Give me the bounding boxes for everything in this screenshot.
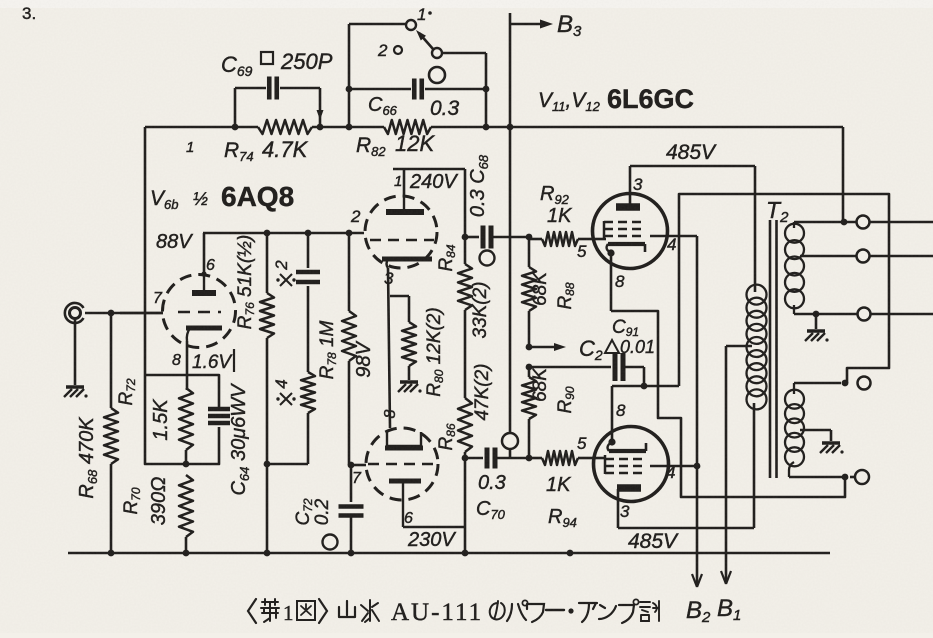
wire top line corner xyxy=(842,127,845,222)
label R82 12K xyxy=(356,131,435,159)
capacitor note2 xyxy=(296,233,320,372)
marker C68 circle xyxy=(480,251,495,266)
label R68 470K xyxy=(76,416,100,499)
tube V6b 6AQ8 envelope xyxy=(163,275,236,348)
wire switch box left xyxy=(348,24,351,127)
junction C68 out xyxy=(526,234,533,241)
transformer T2 secondary upper xyxy=(785,222,804,308)
label C68 xyxy=(467,154,491,217)
label V6b half 6AQ8 xyxy=(150,181,294,212)
label C72 xyxy=(293,498,315,525)
wire V6b pin6 xyxy=(201,233,206,277)
resistor R68 470K xyxy=(104,313,118,553)
label C72 value xyxy=(312,498,333,525)
junction C69 right xyxy=(317,124,324,131)
input jack xyxy=(65,303,84,323)
label 390ohm xyxy=(148,477,170,526)
wire V6b pin7 xyxy=(120,312,163,315)
label 230V xyxy=(407,529,456,551)
label 485V top xyxy=(666,141,717,164)
resistor R84 33K xyxy=(458,264,472,310)
label 1.6V xyxy=(192,349,234,373)
wire V12 plate to primary xyxy=(618,403,754,528)
label C91 xyxy=(612,317,639,339)
wire V12 cathode pin8 xyxy=(612,386,626,441)
tube V6b grid dashes xyxy=(178,311,221,314)
capacitor C68 0.3 xyxy=(465,226,529,249)
label pin 5 lower xyxy=(577,434,587,453)
wire feedback box xyxy=(145,375,219,464)
label 88V xyxy=(156,231,193,253)
page number 3. xyxy=(22,4,36,23)
label 68K upper xyxy=(530,271,551,306)
resistor R88 68K xyxy=(522,237,536,347)
wire pin3 to R80 xyxy=(390,295,409,298)
junction C66 right main xyxy=(483,124,490,131)
junction V12 screen xyxy=(694,463,701,470)
label pin 2 xyxy=(350,207,361,226)
label pin1 small xyxy=(186,139,194,156)
tube driver upper cathode xyxy=(382,259,432,268)
wire secondary row5 xyxy=(789,462,869,484)
marker C70 circle xyxy=(502,433,518,449)
label R84 xyxy=(436,244,458,271)
arrow C2 xyxy=(529,343,566,351)
junction switch-left/main xyxy=(346,124,353,131)
label R94 xyxy=(548,506,577,530)
label R88 xyxy=(555,282,577,309)
wire V6b cathode pin8 xyxy=(186,341,189,390)
junction R76 top xyxy=(264,230,271,237)
tube V6b plate xyxy=(192,277,216,293)
wire V11 cathode loop xyxy=(611,311,845,497)
label pin 8 xyxy=(172,352,181,369)
label B2 xyxy=(686,597,711,626)
label B3 xyxy=(557,11,582,40)
wire ground bus xyxy=(68,552,830,555)
label T2 xyxy=(766,197,789,226)
label B1 xyxy=(717,595,741,624)
wire R76-note4 link xyxy=(267,463,308,466)
wire driver plate pin1 xyxy=(403,169,406,196)
tube V12 6L6GC lower xyxy=(594,427,669,502)
wire chain mid xyxy=(464,310,467,398)
junction box bottom xyxy=(183,461,190,468)
tube driver lower cathode xyxy=(389,481,421,527)
resistor R94 1K xyxy=(529,451,593,465)
transformer T2 core xyxy=(770,220,777,478)
capacitor C72 0.2 xyxy=(339,465,364,553)
junction R68 top xyxy=(108,310,115,317)
resistor R78 1M xyxy=(342,233,356,465)
junction C2 node xyxy=(526,344,533,351)
label 485V bottom xyxy=(628,530,679,553)
wire feedback left drop xyxy=(144,127,147,375)
wire 88V node line xyxy=(203,232,364,235)
wire secondary row1 xyxy=(794,216,933,229)
wire B2 screen line xyxy=(696,236,699,586)
junction C72 bus xyxy=(348,550,355,557)
junction C66 right top xyxy=(483,86,490,93)
switch hub xyxy=(429,67,445,83)
label note4 xyxy=(272,379,296,405)
junction C69 left xyxy=(232,124,239,131)
tube driver upper envelope xyxy=(365,196,437,268)
wire jack ground drop xyxy=(74,319,77,385)
wire cathode pin3 to SRPP xyxy=(388,268,390,428)
arrow B2 xyxy=(692,574,702,587)
wire V11 grid pin5 xyxy=(593,238,606,241)
wire R76 to bus xyxy=(264,464,271,556)
tube driver lower plate xyxy=(385,432,423,448)
junction R76 bottom xyxy=(264,461,271,468)
label R92 1K xyxy=(547,205,573,227)
label 240V xyxy=(409,171,458,193)
wire V11 cathode pin8 xyxy=(611,254,625,311)
label C64 30u6WV xyxy=(228,383,252,496)
junction C68 tap xyxy=(462,234,469,241)
label C91 value xyxy=(605,337,655,357)
junction C91 out xyxy=(641,383,648,390)
label R92 xyxy=(540,183,570,207)
wire B3 line xyxy=(509,13,512,458)
label pin 6 lower-driver xyxy=(404,510,413,527)
label C66 xyxy=(368,94,398,118)
label C70 value xyxy=(478,472,506,494)
resistor R90 68K xyxy=(522,364,536,457)
junction note2 top xyxy=(305,230,312,237)
label R86 xyxy=(436,423,458,450)
label 47K2 xyxy=(472,363,493,420)
wire secondary row3 xyxy=(794,305,933,321)
switch wiper arm xyxy=(416,30,442,58)
wire secondary row4 xyxy=(794,377,871,395)
junction chain bus xyxy=(462,550,469,557)
wire B1 line xyxy=(725,346,728,583)
label note2 xyxy=(272,260,296,286)
junction B3 main xyxy=(507,124,514,131)
arrow B3 xyxy=(510,20,553,29)
label 33K2 xyxy=(470,281,491,338)
resistor R86 47K xyxy=(458,398,472,452)
label pin 7 lower-driver xyxy=(352,470,362,487)
label R94 1K xyxy=(546,474,572,496)
tube V11 6L6GC upper xyxy=(593,194,668,269)
wire lower grid xyxy=(351,464,366,467)
wire V11 screen pin4 xyxy=(650,235,697,254)
label 6L6GC xyxy=(607,84,694,114)
label 68K lower xyxy=(530,367,551,402)
transformer T2 secondary lower xyxy=(785,390,804,467)
caption Fig.1 Sansui AU-111 power amp section xyxy=(248,599,659,626)
capacitor C69 250P xyxy=(235,77,324,128)
junction C70 out xyxy=(526,455,533,462)
label R74 4.7K xyxy=(224,137,309,164)
wire V12 plate pin3 xyxy=(618,489,630,528)
label R78 1M xyxy=(317,320,339,379)
resistor R70 390 xyxy=(179,475,193,553)
label C70 xyxy=(476,498,506,522)
ground R80 xyxy=(398,382,422,393)
transformer T2 primary CT tap xyxy=(726,345,752,348)
junction lower grid xyxy=(348,462,355,469)
label pin 1 xyxy=(394,173,402,190)
resistor R92 1K xyxy=(529,232,593,246)
transformer T2 primary xyxy=(747,166,767,409)
label pin 8 lower-driver xyxy=(382,409,399,418)
resistor note4 xyxy=(301,372,315,464)
ground secondary lower xyxy=(800,430,844,454)
junction R70 bus xyxy=(183,550,190,557)
tube driver lower grid xyxy=(368,463,438,466)
junction C70 tap xyxy=(462,455,469,462)
junction switch-left/C66 xyxy=(346,86,353,93)
label C2 xyxy=(579,336,603,363)
resistor R72 1.5K xyxy=(179,388,193,465)
tube driver lower envelope xyxy=(366,428,438,500)
label pin 6 xyxy=(206,257,215,274)
ground secondary upper xyxy=(805,314,829,342)
label C69 value xyxy=(221,49,333,79)
label switch 2 xyxy=(377,41,402,60)
label pin 3 xyxy=(384,269,394,288)
label 98V xyxy=(353,341,375,378)
tube V6b cathode xyxy=(186,328,222,341)
junction bus R68 xyxy=(108,550,115,557)
resistor R82 xyxy=(384,120,431,134)
junction R78 top xyxy=(346,230,353,237)
label R80 12K2 xyxy=(424,307,446,396)
wire jack to grid xyxy=(85,312,163,315)
resistor R74 xyxy=(258,120,312,134)
wire chain bottom xyxy=(403,452,465,553)
wire secondary row2 xyxy=(800,250,933,263)
capacitor C66 0.3 xyxy=(349,79,486,100)
marker C72 circle xyxy=(323,535,338,550)
label pin 7 xyxy=(153,290,163,307)
capacitor C70 0.3 xyxy=(465,448,529,469)
wire V12 screen pin4 xyxy=(650,463,697,482)
wire main top feedback line xyxy=(145,126,843,129)
wire V12 cathode loop xyxy=(612,194,889,386)
capacitor C64 bars xyxy=(208,409,230,423)
label R76 51K xyxy=(235,235,257,330)
wire chain top xyxy=(393,169,465,264)
resistor R80 12K xyxy=(402,296,416,380)
label V11 V12 xyxy=(538,89,601,114)
resistor R76 51K xyxy=(260,233,274,464)
wire switch to C66 right xyxy=(442,53,486,127)
label R72 xyxy=(116,378,138,405)
arrow B1 xyxy=(721,571,731,584)
junction bus extra xyxy=(567,550,574,557)
ground input jack xyxy=(64,387,88,398)
label 1.5K xyxy=(150,398,172,441)
label R70 xyxy=(121,487,143,514)
switch contact 1 xyxy=(349,20,416,30)
label pin 5 upper xyxy=(577,242,587,261)
wire V11 plate pin3 xyxy=(630,166,643,206)
tube driver upper plate xyxy=(386,196,424,212)
label C66 value xyxy=(430,97,460,120)
capacitor C91 0.01 xyxy=(529,353,644,386)
label R90 xyxy=(555,386,577,413)
label switch 1 xyxy=(417,5,432,24)
wire 485V top run xyxy=(630,165,755,168)
wire V12 grid pin5 xyxy=(593,457,606,460)
tube driver upper grid xyxy=(370,239,434,242)
